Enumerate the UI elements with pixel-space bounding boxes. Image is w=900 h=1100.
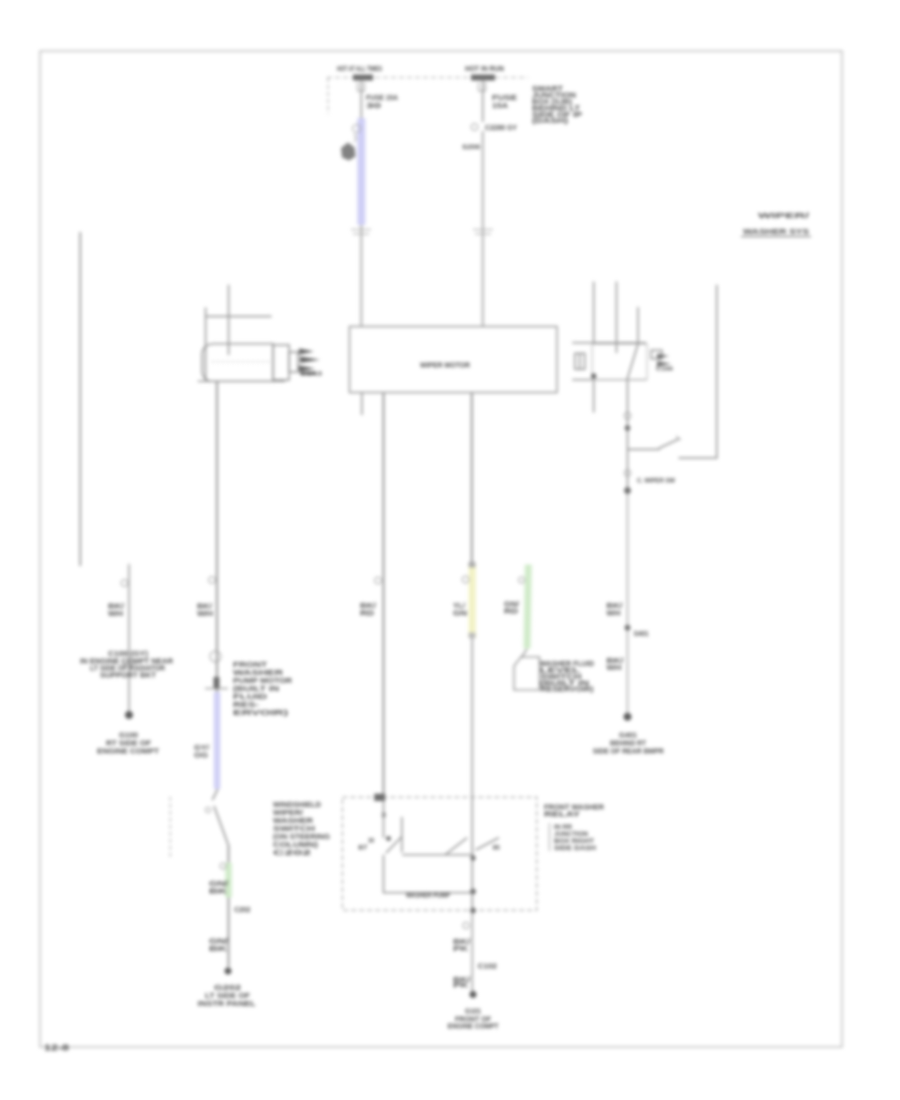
svg-text:SWITCH: SWITCH <box>273 826 315 833</box>
svg-text:G101: G101 <box>465 1009 481 1016</box>
svg-text:RT SIDE OF: RT SIDE OF <box>106 741 152 748</box>
svg-text:PUMP MOTOR: PUMP MOTOR <box>233 678 292 685</box>
svg-text:WH: WH <box>108 611 123 618</box>
svg-text:G100: G100 <box>119 733 138 740</box>
svg-text:WASHER SYS: WASHER SYS <box>743 227 809 236</box>
svg-text:WASHER PUMP: WASHER PUMP <box>406 892 450 899</box>
svg-text:SIDE OF REAR BMPR: SIDE OF REAR BMPR <box>593 749 664 756</box>
svg-text:C202: C202 <box>273 850 311 857</box>
svg-text:YL/: YL/ <box>453 603 465 610</box>
svg-text:C100 (GY): C100 (GY) <box>108 651 148 658</box>
svg-text:C166: C166 <box>656 367 673 373</box>
svg-text:87: 87 <box>358 846 368 852</box>
svg-text:HOT AT ALL TIMES: HOT AT ALL TIMES <box>337 66 382 73</box>
svg-text:PK: PK <box>453 983 468 990</box>
svg-text:RD: RD <box>504 609 518 616</box>
svg-text:GN: GN <box>453 611 467 618</box>
svg-text:S401: S401 <box>634 631 649 638</box>
svg-text:85: 85 <box>493 846 501 852</box>
svg-text:C202: C202 <box>234 907 250 914</box>
svg-text:WASHER: WASHER <box>233 670 283 677</box>
svg-text:BK/: BK/ <box>360 603 376 610</box>
svg-text:(BUILT IN: (BUILT IN <box>233 686 279 693</box>
svg-text:ERVOIR): ERVOIR) <box>233 710 288 717</box>
svg-text:INSTR PANEL: INSTR PANEL <box>198 1001 257 1008</box>
svg-text:BK: BK <box>209 889 227 896</box>
svg-text:ENGINE COMPT: ENGINE COMPT <box>448 1024 500 1031</box>
svg-text:12-8: 12-8 <box>44 1044 70 1053</box>
svg-text:G202: G202 <box>214 985 241 992</box>
svg-text:WH: WH <box>606 611 620 618</box>
svg-text:RES-: RES- <box>233 702 260 709</box>
svg-text:RD: RD <box>360 611 374 618</box>
svg-text:C143: C143 <box>300 372 322 378</box>
svg-text:GY/: GY/ <box>194 745 209 752</box>
svg-text:FRONT WASHER: FRONT WASHER <box>544 805 604 812</box>
svg-text:SUPPORT BKT: SUPPORT BKT <box>100 673 157 680</box>
svg-text:BK/: BK/ <box>606 658 623 665</box>
svg-text:BOX RIGHT: BOX RIGHT <box>554 838 594 845</box>
svg-text:BK/: BK/ <box>606 603 622 610</box>
svg-text:COLUMN): COLUMN) <box>273 842 318 849</box>
svg-text:IN RR: IN RR <box>554 824 572 831</box>
svg-text:30: 30 <box>366 103 381 110</box>
svg-text:RESERVOIR): RESERVOIR) <box>541 687 594 694</box>
svg-text:C102: C102 <box>478 964 497 971</box>
svg-text:RELAY: RELAY <box>544 812 580 819</box>
svg-text:WH: WH <box>197 611 213 618</box>
svg-text:(ON STEERING: (ON STEERING <box>273 834 331 841</box>
svg-text:LT SIDE OF: LT SIDE OF <box>205 993 251 1000</box>
svg-text:(DASH): (DASH) <box>532 118 568 125</box>
svg-text:C. WIPER SW: C. WIPER SW <box>637 478 676 485</box>
svg-text:WIPER/: WIPER/ <box>758 211 811 220</box>
svg-text:C2280 GY: C2280 GY <box>485 125 517 132</box>
svg-text:15A: 15A <box>492 103 508 110</box>
svg-text:WASHER: WASHER <box>273 818 313 825</box>
svg-text:S206: S206 <box>462 145 481 151</box>
svg-text:WIPER/: WIPER/ <box>273 810 303 817</box>
svg-text:G401: G401 <box>619 733 637 740</box>
svg-text:GN/: GN/ <box>209 881 228 888</box>
svg-text:WIPER MOTOR: WIPER MOTOR <box>420 363 470 370</box>
svg-text:WINDSHIELD: WINDSHIELD <box>273 802 321 809</box>
svg-text:OG: OG <box>194 753 209 760</box>
svg-text:SIDE DASH: SIDE DASH <box>554 845 596 852</box>
svg-text:LT SIDE OF RADIATOR: LT SIDE OF RADIATOR <box>90 666 165 673</box>
svg-text:GN/: GN/ <box>504 602 519 609</box>
svg-text:FUSE: FUSE <box>492 95 517 102</box>
svg-text:BK/: BK/ <box>453 939 470 946</box>
svg-text:HOT IN RUN: HOT IN RUN <box>465 66 504 73</box>
svg-text:IN ENGINE COMPT NEAR: IN ENGINE COMPT NEAR <box>80 659 173 666</box>
svg-text:30: 30 <box>368 839 375 845</box>
svg-text:FRONT OF: FRONT OF <box>455 1017 492 1024</box>
svg-text:FUSE 15A: FUSE 15A <box>366 95 398 102</box>
svg-text:FRONT: FRONT <box>233 662 268 669</box>
svg-text:FLUID: FLUID <box>233 694 267 701</box>
svg-text:ENGINE COMPT: ENGINE COMPT <box>97 749 160 756</box>
svg-text:BEHIND RT: BEHIND RT <box>610 741 647 748</box>
svg-text:BK: BK <box>209 946 227 953</box>
svg-text:JUNCTION: JUNCTION <box>554 831 588 838</box>
svg-text:GN/: GN/ <box>209 939 228 946</box>
svg-text:BK/: BK/ <box>197 604 212 611</box>
svg-text:PK: PK <box>453 946 468 953</box>
svg-text:BK/: BK/ <box>108 604 124 611</box>
svg-text:WH: WH <box>606 665 621 672</box>
